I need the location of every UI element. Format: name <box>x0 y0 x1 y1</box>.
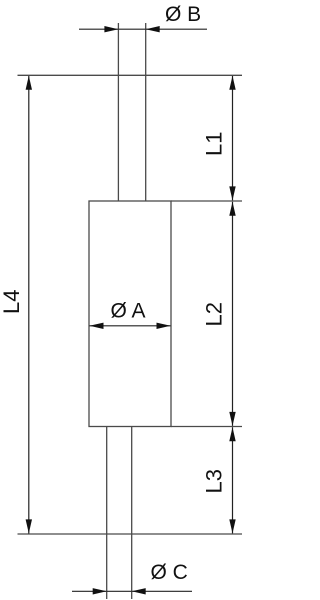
extension line bottom <box>18 533 243 535</box>
svg-text:L2: L2 <box>202 302 227 326</box>
wire lead bottom <box>107 427 132 600</box>
dimension line L1 <box>229 76 235 201</box>
dimension line diameter A <box>90 323 171 329</box>
dimension line L2 <box>229 202 235 426</box>
extension line top <box>18 74 243 76</box>
wire lead top <box>118 23 145 201</box>
extension line body top right <box>171 200 242 202</box>
dimension line L4 <box>26 76 32 534</box>
svg-text:L1: L1 <box>202 132 227 156</box>
dimension line L3 <box>229 427 235 533</box>
component body <box>89 201 171 427</box>
svg-text:Ø C: Ø C <box>151 561 188 584</box>
svg-text:L3: L3 <box>202 469 227 493</box>
svg-text:Ø A: Ø A <box>111 300 146 323</box>
dimension line diameter B <box>79 26 207 32</box>
extension line body bottom right <box>171 426 242 428</box>
svg-text:L4: L4 <box>0 290 24 314</box>
svg-text:Ø B: Ø B <box>165 3 201 26</box>
dimension line diameter C <box>72 588 192 594</box>
